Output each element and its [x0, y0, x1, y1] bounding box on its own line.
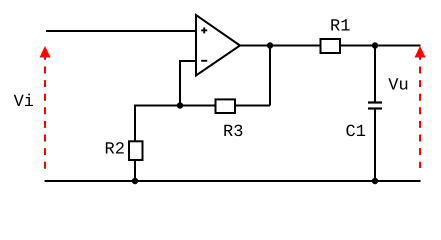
resistor R3: [216, 99, 236, 113]
junction output node: [267, 42, 273, 48]
junction feedback node: [177, 102, 183, 108]
svg-text:Vi: Vi: [14, 93, 34, 112]
resistor R2: [129, 141, 143, 160]
op-amp U1: [196, 15, 240, 76]
svg-text:C1: C1: [346, 123, 366, 142]
wire output down to feedback: [269, 46, 271, 106]
arrow Vi: [40, 46, 51, 172]
svg-text:R1: R1: [330, 18, 350, 37]
wire output to R1 and right: [239, 45, 421, 47]
wire R2 branch vertical: [134, 106, 136, 182]
wire top input: [46, 30, 196, 32]
arrow Vu: [415, 46, 426, 168]
wire bottom rail: [45, 180, 421, 182]
svg-text:R3: R3: [223, 123, 243, 142]
wire inverting input: [180, 61, 196, 106]
svg-text:Vu: Vu: [388, 77, 408, 96]
junction R2 ground: [132, 178, 138, 184]
junction Vu node: [372, 42, 378, 48]
wire C1 branch vertical: [374, 46, 376, 103]
junction C1 ground: [372, 178, 378, 184]
capacitor C1: [368, 103, 382, 109]
svg-text:R2: R2: [105, 141, 125, 160]
resistor R1: [321, 39, 341, 53]
wire feedback node horizontal: [134, 105, 270, 107]
